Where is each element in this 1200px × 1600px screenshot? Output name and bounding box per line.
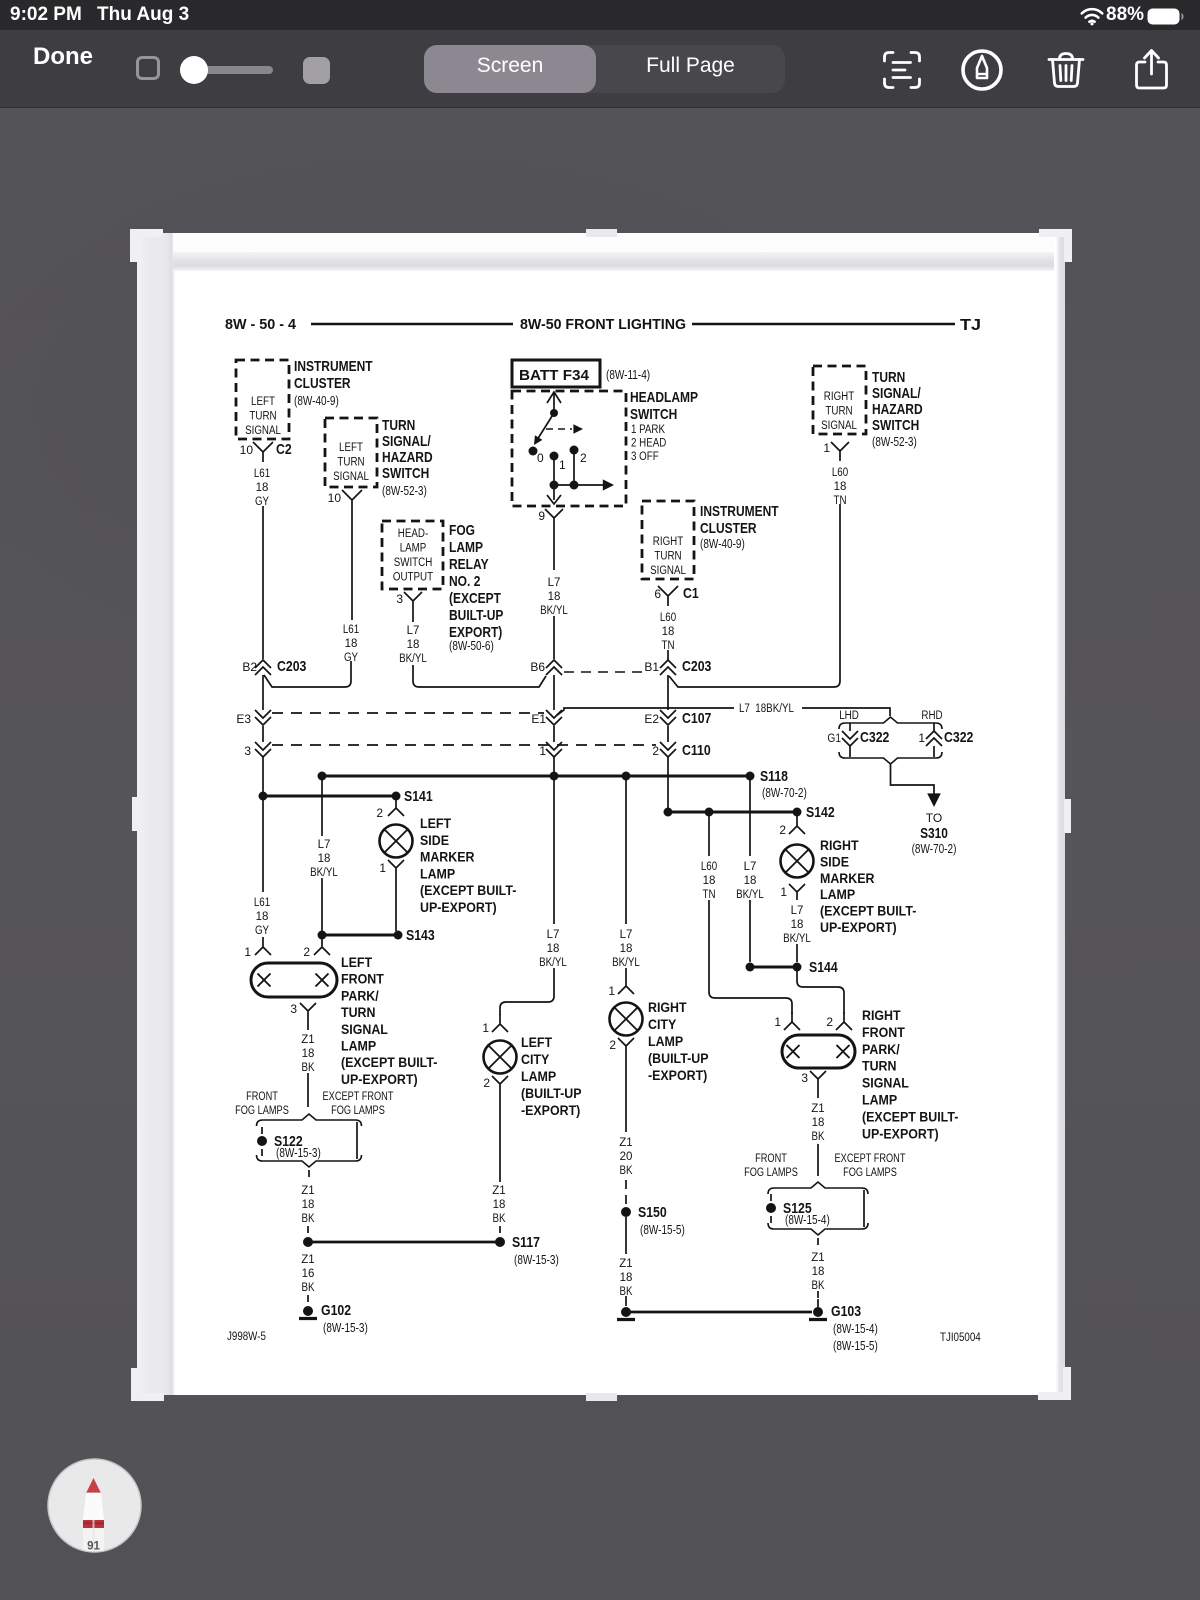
svg-text:SWITCH: SWITCH [872, 417, 919, 434]
svg-text:18: 18 [302, 1048, 315, 1060]
right front park turn signal lamp title [862, 1008, 958, 1141]
svg-text:2: 2 [826, 1015, 833, 1029]
svg-text:1: 1 [780, 885, 787, 899]
share icon [1130, 47, 1174, 91]
wire L61 from C2 down to C203 [262, 506, 264, 659]
wire L7 to S144 [749, 900, 751, 962]
splice S150 dot [621, 1207, 631, 1217]
instrument cluster left dashed box [236, 360, 289, 439]
header rule left [311, 323, 513, 326]
svg-text:S118: S118 [760, 768, 788, 785]
opacity slider [192, 66, 273, 74]
splice S118 bus [322, 775, 750, 778]
svg-text:LAMP: LAMP [521, 1069, 556, 1084]
svg-text:L61: L61 [254, 468, 270, 480]
svg-text:NO. 2: NO. 2 [449, 573, 480, 590]
svg-text:(8W-15-3): (8W-15-3) [514, 1253, 559, 1267]
dashed travel arrow [546, 428, 572, 430]
svg-text:GY: GY [255, 496, 269, 508]
svg-text:18: 18 [345, 638, 358, 650]
svg-text:(BUILT-UP: (BUILT-UP [521, 1086, 582, 1101]
turn signal hazard switch title [382, 417, 433, 482]
svg-text:BK: BK [493, 1213, 506, 1225]
svg-text:Z1: Z1 [619, 1258, 632, 1270]
svg-text:G102: G102 [321, 1302, 351, 1319]
S142 dot right [793, 808, 802, 817]
svg-text:B6: B6 [530, 660, 545, 674]
S144 dot right [793, 963, 802, 972]
svg-text:S141: S141 [404, 788, 433, 805]
live text icon [883, 51, 921, 89]
svg-text:SIGNAL: SIGNAL [245, 425, 281, 437]
svg-text:BK/YL: BK/YL [399, 653, 427, 665]
svg-text:1 PARK: 1 PARK [631, 424, 665, 436]
svg-text:FRONT: FRONT [341, 972, 384, 987]
svg-text:1: 1 [823, 441, 830, 455]
svg-text:HEADLAMP: HEADLAMP [630, 389, 698, 406]
svg-text:BK: BK [302, 1282, 315, 1294]
wire label L61 18 GY [254, 468, 270, 508]
svg-text:1: 1 [482, 1021, 489, 1035]
wire Z1 below right park lamp [817, 1089, 819, 1098]
svg-text:BK: BK [620, 1165, 633, 1177]
svg-text:FOG LAMPS: FOG LAMPS [331, 1105, 385, 1117]
junction dot pin1 output [550, 481, 559, 490]
svg-text:Z1: Z1 [619, 1137, 632, 1149]
svg-text:MARKER: MARKER [820, 871, 875, 886]
svg-text:(8W-70-2): (8W-70-2) [762, 786, 807, 800]
svg-text:18: 18 [256, 911, 269, 923]
headlamp switch output line with arrow [554, 484, 606, 486]
svg-text:SIDE: SIDE [420, 833, 449, 848]
svg-text:(EXCEPT BUILT-: (EXCEPT BUILT- [341, 1055, 437, 1070]
svg-text:INSTRUMENT: INSTRUMENT [294, 358, 373, 375]
svg-text:18: 18 [256, 482, 269, 494]
svg-text:3 OFF: 3 OFF [631, 451, 659, 463]
wire bend L60 to right park lamp [709, 900, 792, 1014]
svg-text:2: 2 [779, 823, 786, 837]
svg-text:RIGHT: RIGHT [820, 838, 859, 853]
wire below B1 [667, 675, 669, 710]
S118 dot x554 [550, 772, 559, 781]
svg-text:2: 2 [609, 1038, 616, 1052]
right gray band [1056, 233, 1065, 1395]
right turn signal label (hazard switch) [821, 391, 857, 432]
wire Z1 to right fog-lamp split [817, 1144, 819, 1176]
wire from left side marker to S143 [395, 877, 397, 931]
svg-text:18: 18 [302, 1199, 315, 1211]
right split top brace [768, 1182, 868, 1194]
svg-text:PARK/: PARK/ [862, 1042, 900, 1057]
svg-text:S310: S310 [920, 826, 948, 842]
svg-text:L7: L7 [318, 839, 331, 851]
editor toolbar [0, 30, 1200, 108]
svg-text:18: 18 [812, 1266, 825, 1278]
svg-text:C203: C203 [682, 658, 711, 675]
left city lamp title [521, 1035, 582, 1118]
wire L61 from S141 down [262, 800, 264, 892]
instrument cluster right dashed box [642, 501, 694, 579]
trash icon [1046, 50, 1086, 90]
left split bottom brace [257, 1155, 362, 1167]
svg-text:BK: BK [302, 1062, 315, 1074]
wire between E3 and 3 [262, 726, 264, 742]
crop handles [130, 229, 163, 237]
S142 dot middle [705, 808, 714, 817]
svg-text:EXCEPT FRONT: EXCEPT FRONT [323, 1091, 394, 1103]
turn signal hazard switch left dashed box [325, 418, 377, 487]
svg-text:C1: C1 [683, 585, 699, 602]
svg-text:2: 2 [652, 744, 659, 758]
wire below B6 [553, 675, 555, 710]
wire label Z1 16 BK [301, 1254, 314, 1294]
S143 dot right [394, 931, 403, 940]
LHD/RHD top brace [839, 717, 942, 729]
svg-text:(8W-15-4): (8W-15-4) [833, 1322, 878, 1336]
wire Z1 below pin 3 [307, 1021, 309, 1030]
svg-text:S142: S142 [806, 804, 835, 821]
svg-text:L60: L60 [701, 861, 717, 873]
svg-text:SIGNAL: SIGNAL [333, 471, 369, 483]
wire L7 from S118 end down [749, 780, 751, 856]
svg-text:RIGHT: RIGHT [824, 391, 854, 403]
LHD/RHD bottom brace [839, 752, 942, 764]
svg-text:LAMP: LAMP [341, 1039, 376, 1054]
svg-text:TURN: TURN [337, 457, 364, 469]
wire label L7 18 BK/YL (S144) [736, 861, 764, 901]
svg-text:(8W-40-9): (8W-40-9) [700, 537, 745, 551]
svg-text:18: 18 [318, 853, 331, 865]
svg-text:GY: GY [255, 925, 269, 937]
checkbox tool [136, 56, 160, 80]
wire L7 from pin 9 [553, 528, 555, 570]
left split dashed branch with S122 [261, 1127, 263, 1134]
dash above S117 [499, 1226, 501, 1235]
S143 dot left [318, 931, 327, 940]
svg-text:(8W-52-3): (8W-52-3) [382, 484, 427, 498]
svg-text:18: 18 [493, 1199, 506, 1211]
svg-text:LAMP: LAMP [449, 539, 483, 556]
right side marker lamp [781, 845, 814, 878]
dashed link B6-B1 [564, 671, 646, 673]
svg-text:BK: BK [812, 1131, 825, 1143]
wire label Z1 18 BK (right split) [811, 1252, 824, 1292]
svg-text:C107: C107 [682, 710, 711, 727]
wire label L7 18 BK/YL (S143) [310, 839, 338, 879]
wire bend L7 into C203 B6 [413, 665, 546, 687]
splice S117 dot [495, 1237, 505, 1247]
svg-text:18: 18 [620, 943, 633, 955]
svg-text:C2: C2 [276, 441, 292, 458]
svg-text:G1: G1 [827, 731, 841, 745]
left turn signal label [245, 396, 281, 437]
svg-text:L60: L60 [660, 612, 676, 624]
svg-text:SIGNAL: SIGNAL [862, 1076, 909, 1091]
headlamp switch position 2 dot [570, 446, 579, 455]
splice S143 bus [322, 934, 398, 937]
svg-text:FRONT: FRONT [755, 1153, 787, 1165]
svg-text:C322: C322 [944, 729, 973, 746]
svg-text:FRONT: FRONT [862, 1025, 905, 1040]
left split top brace [257, 1114, 362, 1126]
svg-text:18: 18 [662, 626, 675, 638]
wire label Z1 18 BK (left) [301, 1034, 314, 1074]
svg-text:2: 2 [483, 1076, 490, 1090]
junction dot left of S117 bus [303, 1237, 313, 1247]
svg-text:L61: L61 [254, 897, 270, 909]
svg-text:HAZARD: HAZARD [382, 449, 433, 466]
wire below 2 to S142 [667, 757, 669, 808]
dashed line E3 to E1 [272, 712, 544, 714]
wire L7 from S118 down [321, 780, 323, 836]
svg-text:(8W-70-2): (8W-70-2) [912, 842, 957, 856]
svg-text:18: 18 [812, 1117, 825, 1129]
dashed line 3 to C110 [272, 744, 656, 746]
svg-text:C322: C322 [860, 729, 889, 746]
svg-text:TURN: TURN [825, 406, 852, 418]
wire bend L61 into C203 B2 [264, 661, 351, 687]
wire from position 1 [553, 459, 555, 485]
svg-text:LHD: LHD [839, 710, 859, 722]
svg-text:18: 18 [620, 1272, 633, 1284]
svg-text:BK/YL: BK/YL [783, 933, 811, 945]
left front park/turn signal lamp [251, 963, 337, 997]
svg-text:E3: E3 [236, 712, 251, 726]
svg-text:L7 18BK/YL: L7 18BK/YL [739, 703, 794, 715]
right split right branch [863, 1190, 865, 1227]
svg-text:S117: S117 [512, 1234, 540, 1251]
svg-text:1: 1 [539, 744, 546, 758]
svg-text:Z1: Z1 [301, 1185, 314, 1197]
svg-text:Z1: Z1 [492, 1185, 505, 1197]
svg-text:LEFT: LEFT [420, 816, 452, 831]
right city lamp [610, 1003, 643, 1036]
except front fog lamps label right [835, 1153, 906, 1179]
header rule right [692, 323, 955, 326]
S118 dot right end [746, 772, 755, 781]
jumper wire L7 18BK/YL to LHD/RHD split [556, 708, 890, 716]
svg-text:S143: S143 [406, 927, 435, 944]
svg-text:18: 18 [834, 481, 847, 493]
wire Z1 to fog-lamp split [307, 1073, 309, 1107]
svg-text:SIDE: SIDE [820, 854, 849, 869]
S117 bus line [308, 1241, 500, 1244]
svg-text:BK/YL: BK/YL [310, 867, 338, 879]
svg-text:LAMP: LAMP [648, 1034, 683, 1049]
headlamp switch wiper arm [537, 413, 554, 440]
junction dot pin2 output [570, 481, 579, 490]
wire label Z1 18 BK (S150) [619, 1258, 632, 1298]
wire from position 2 [573, 453, 575, 485]
iOS status bar [0, 0, 1200, 30]
headlamp switch title [630, 389, 698, 423]
svg-text:L7: L7 [407, 625, 420, 637]
headlamp switch dashed box [512, 391, 626, 506]
svg-text:FOG LAMPS: FOG LAMPS [235, 1105, 289, 1117]
svg-text:SWITCH: SWITCH [382, 465, 429, 482]
svg-text:10: 10 [240, 443, 254, 457]
wire label Z1 18 BK (left city) [492, 1185, 505, 1225]
svg-text:(8W-15-5): (8W-15-5) [640, 1223, 685, 1237]
wire bend to left city lamp [500, 968, 554, 1015]
svg-text:G103: G103 [831, 1303, 861, 1320]
svg-text:(8W-15-3): (8W-15-3) [276, 1146, 321, 1160]
svg-text:8W-50 FRONT LIGHTING: 8W-50 FRONT LIGHTING [520, 316, 686, 333]
markup pencil icon [960, 48, 1004, 92]
svg-text:SWITCH: SWITCH [630, 406, 677, 423]
turn signal hazard switch title right [872, 369, 923, 434]
svg-text:LEFT: LEFT [341, 955, 373, 970]
svg-text:TURN: TURN [872, 369, 905, 386]
svg-text:16: 16 [302, 1268, 315, 1280]
svg-text:20: 20 [620, 1151, 633, 1163]
wire L7 from S118 down (right city) [625, 780, 627, 924]
wifi icon [1080, 7, 1104, 26]
svg-text:BK/YL: BK/YL [540, 605, 568, 617]
svg-text:FRONT: FRONT [246, 1091, 278, 1103]
splice S125 dot [766, 1203, 776, 1213]
wire to right city lamp [625, 968, 627, 976]
svg-text:UP-EXPORT): UP-EXPORT) [862, 1126, 939, 1141]
svg-text:EXCEPT FRONT: EXCEPT FRONT [835, 1153, 906, 1165]
svg-text:RIGHT: RIGHT [648, 1000, 687, 1015]
svg-text:SWITCH: SWITCH [394, 557, 433, 569]
wire to S310 with arrow [891, 764, 935, 799]
dash above G102 [307, 1295, 309, 1303]
G103 bus line [630, 1311, 812, 1314]
wire L7 down to C203 B6 [553, 616, 555, 659]
svg-text:CITY: CITY [521, 1052, 549, 1067]
svg-text:RIGHT: RIGHT [862, 1008, 901, 1023]
svg-text:E1: E1 [531, 712, 546, 726]
wire below 1 to S118 [553, 757, 555, 772]
svg-text:RHD: RHD [921, 710, 942, 722]
svg-text:INSTRUMENT: INSTRUMENT [700, 503, 779, 520]
svg-text:-EXPORT): -EXPORT) [648, 1068, 707, 1083]
S141 dot right [392, 792, 401, 801]
segmented control [424, 45, 785, 93]
svg-text:TJI05004: TJI05004 [940, 1332, 981, 1344]
svg-text:C110: C110 [682, 742, 711, 759]
headlamp switch output label [393, 528, 433, 584]
svg-text:PARK/: PARK/ [341, 988, 379, 1003]
svg-text:LAMP: LAMP [820, 887, 855, 902]
wire L61 from hazard switch down [351, 510, 353, 620]
svg-text:2: 2 [376, 806, 383, 820]
wire L7 from S118 down (left city) [553, 780, 555, 924]
right split bottom brace [768, 1223, 868, 1235]
svg-text:BK: BK [302, 1213, 315, 1225]
svg-text:91: 91 [87, 1541, 100, 1553]
svg-text:SIGNAL/: SIGNAL/ [382, 433, 431, 450]
ground dot left of G103 [617, 1307, 635, 1320]
svg-text:RIGHT: RIGHT [653, 536, 683, 548]
wire label L7 18 BK/YL (pin9) [540, 577, 568, 617]
S118 dot x626 [622, 772, 631, 781]
wire below B2 [262, 675, 264, 710]
svg-text:TURN: TURN [382, 417, 415, 434]
wire label L7 18 BK/YL (right city) [612, 929, 640, 969]
svg-text:(EXCEPT BUILT-: (EXCEPT BUILT- [862, 1109, 958, 1124]
svg-text:FOG LAMPS: FOG LAMPS [843, 1167, 897, 1179]
svg-text:HAZARD: HAZARD [872, 401, 923, 418]
svg-text:S150: S150 [638, 1204, 667, 1221]
svg-text:BK/YL: BK/YL [612, 957, 640, 969]
wire L7 below pin 3 [412, 611, 414, 622]
S144 dot left [746, 963, 755, 972]
svg-text:TURN: TURN [654, 551, 681, 563]
svg-text:18: 18 [407, 639, 420, 651]
svg-text:(EXCEPT: (EXCEPT [449, 590, 501, 607]
svg-text:TJ: TJ [960, 317, 981, 334]
svg-text:E2: E2 [644, 712, 659, 726]
svg-text:(8W-40-9): (8W-40-9) [294, 394, 339, 408]
svg-text:3: 3 [396, 592, 403, 606]
right turn signal label (cluster) [650, 536, 686, 577]
instrument cluster title [294, 358, 373, 392]
svg-text:TURN: TURN [341, 1005, 376, 1020]
svg-text:Z1: Z1 [811, 1103, 824, 1115]
headlamp switch position 1 dot [550, 452, 559, 461]
front fog lamps label left [235, 1091, 289, 1117]
svg-text:2 HEAD: 2 HEAD [631, 438, 666, 450]
wire label L61 18 GY (park lamp) [254, 897, 270, 937]
splice S144 bus [750, 966, 797, 969]
screenshot (cropped) with white page [137, 233, 1065, 1395]
headlamp switch arrow up to BATT [547, 392, 561, 413]
svg-text:9: 9 [538, 509, 545, 523]
svg-text:CLUSTER: CLUSTER [700, 520, 757, 537]
svg-text:OUTPUT: OUTPUT [393, 572, 433, 584]
left side marker lamp title [420, 816, 516, 915]
battery icon [1147, 8, 1187, 25]
svg-text:10: 10 [328, 491, 342, 505]
top white band + gray band (app chrome in screenshot) [173, 233, 1054, 252]
svg-text:C203: C203 [277, 658, 306, 675]
svg-text:BK/YL: BK/YL [736, 889, 764, 901]
svg-text:(8W-11-4): (8W-11-4) [606, 368, 650, 382]
svg-text:8W - 50 - 4: 8W - 50 - 4 [225, 317, 296, 333]
svg-text:18: 18 [791, 919, 804, 931]
svg-text:SIGNAL/: SIGNAL/ [872, 385, 921, 402]
svg-text:L7: L7 [744, 861, 757, 873]
svg-text:(8W-15-5): (8W-15-5) [833, 1339, 878, 1353]
svg-text:1: 1 [774, 1015, 781, 1029]
wire label Z1 20 BK [619, 1137, 632, 1177]
svg-text:TO: TO [926, 811, 942, 825]
svg-text:Z1: Z1 [811, 1252, 824, 1264]
svg-text:BUILT-UP: BUILT-UP [449, 607, 503, 624]
svg-text:TURN: TURN [862, 1059, 897, 1074]
wire label Z1 18 BK (right) [811, 1103, 824, 1143]
svg-text:LEFT: LEFT [339, 442, 363, 454]
svg-text:-EXPORT): -EXPORT) [521, 1103, 580, 1118]
wire label L7 18 BK/YL (relay) [399, 625, 427, 665]
svg-text:J998W-5: J998W-5 [227, 1331, 266, 1343]
wire to S144 right dot [796, 944, 798, 962]
dash above S117 junction [307, 1226, 309, 1235]
svg-text:L7: L7 [791, 905, 804, 917]
svg-text:1: 1 [608, 984, 615, 998]
svg-text:HEAD-: HEAD- [398, 528, 429, 540]
svg-text:RELAY: RELAY [449, 556, 489, 573]
svg-text:LEFT: LEFT [251, 396, 275, 408]
front fog lamps label right [744, 1153, 798, 1179]
svg-text:(8W-52-3): (8W-52-3) [872, 435, 917, 449]
svg-text:(8W-15-3): (8W-15-3) [323, 1321, 368, 1335]
right split dashed branch with S125 [770, 1194, 772, 1201]
svg-text:1: 1 [918, 731, 925, 745]
